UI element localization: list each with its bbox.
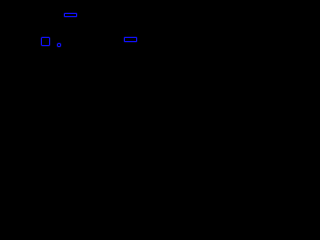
component box D — [41, 37, 50, 46]
resistor R2 — [124, 37, 137, 42]
resistor R1 — [64, 13, 77, 17]
terminal o — [57, 43, 62, 48]
